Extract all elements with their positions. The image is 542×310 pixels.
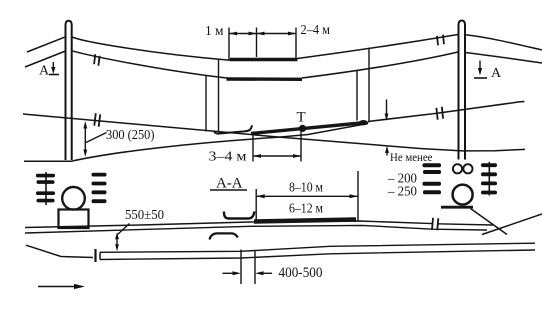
thick overlap segment on messenger A	[230, 58, 298, 62]
thick contact wire Q of incoming section	[251, 123, 366, 134]
thick overlap segment on messenger B	[227, 77, 303, 81]
dimension 400-500 left arrow	[223, 272, 236, 274]
underline A-A	[210, 189, 247, 191]
section mark A left: arrow and bar	[52, 62, 54, 71]
left tension pulley circle	[62, 187, 85, 210]
section mark A right: arrow and bar	[479, 61, 481, 73]
svg-text:300 (250): 300 (250)	[106, 127, 155, 142]
insulator on wire B	[94, 54, 100, 65]
left insulator stack 2 bars	[92, 173, 107, 203]
svg-text:Т: Т	[297, 110, 306, 126]
node T dot	[299, 125, 306, 132]
plan double line left section	[25, 221, 432, 228]
right insulator stack A bars	[423, 163, 442, 194]
right anchor diagonal up	[482, 214, 542, 235]
dimension 400-500 ticks	[241, 250, 255, 285]
dimension 3-4 m ticks	[253, 132, 301, 162]
svg-text:– 250: – 250	[387, 185, 417, 200]
insulator on wire A'	[437, 35, 444, 46]
top dimension line 2-4m	[257, 33, 297, 35]
right insulator stack B bars	[481, 163, 497, 194]
messenger wire A' rising to right pole	[298, 35, 459, 59]
dimension 300 (250) arrow	[84, 124, 86, 152]
svg-text:3–4 м: 3–4 м	[209, 150, 247, 165]
svg-text:1 м: 1 м	[205, 24, 224, 39]
plan wire rect left closure	[99, 252, 101, 259]
messenger wire B main span	[72, 51, 229, 79]
hooked end of contact wire (elevation)	[214, 125, 252, 133]
rail line lower	[100, 250, 535, 260]
dimension 3-4 m line	[253, 155, 301, 157]
plan thick working wire	[254, 220, 356, 222]
insulator on wire P	[94, 113, 100, 126]
contact wire P descending left to right	[23, 114, 525, 151]
messenger wire B' beyond right pole	[465, 53, 542, 64]
contact wire B rising to overlap	[24, 124, 368, 162]
insulator on wire R1	[436, 107, 443, 120]
plan anchor tick before rect	[94, 249, 96, 262]
svg-text:6–12 м: 6–12 м	[289, 202, 323, 217]
right pole	[459, 21, 466, 160]
svg-text:А: А	[491, 66, 502, 81]
hanger left 2	[218, 59, 220, 132]
svg-text:2–4 м: 2–4 м	[301, 23, 331, 38]
anchor wire R1 rising beyond right pole	[368, 102, 525, 122]
ne menee lower arrow	[386, 150, 388, 156]
right pole base circles	[453, 164, 462, 173]
svg-text:А-А: А-А	[216, 176, 243, 192]
ne menee upper arrow	[386, 100, 388, 117]
svg-text:8–10 м: 8–10 м	[289, 181, 323, 196]
right insulator stack B vertical	[488, 162, 490, 196]
svg-text:400-500: 400-500	[279, 265, 323, 281]
top dimension ticks	[229, 28, 296, 60]
svg-text:А: А	[39, 64, 50, 79]
clamp blob at right end of wire Q	[359, 120, 368, 125]
messenger wire B left anchor span	[25, 51, 66, 67]
messenger wire A main span	[72, 37, 230, 60]
hanger left 1	[205, 76, 207, 132]
svg-text:Не менее: Не менее	[390, 150, 433, 164]
leader for 300 (250)	[86, 133, 107, 143]
plan hooked wire end bracket 1	[224, 212, 254, 219]
messenger wire A left anchor span	[27, 37, 66, 52]
left counterweight box	[59, 210, 89, 229]
dimension 400-500 right arrow	[261, 272, 272, 274]
leader 550	[118, 224, 130, 235]
dimension line 8-10 / 6-12	[256, 195, 358, 197]
plan bracket 2	[210, 233, 238, 239]
left insulator stack 1 bars	[36, 174, 55, 203]
svg-text:550±50: 550±50	[125, 207, 164, 222]
right anchor base bar	[441, 206, 473, 209]
messenger wire B' rising to right pole	[302, 52, 458, 78]
plan lead-in diagonal	[26, 245, 93, 257]
direction arrow bottom left	[38, 286, 76, 288]
hanger right 2	[368, 48, 370, 123]
right tension pulley circle	[453, 185, 473, 205]
rail line upper	[100, 243, 535, 252]
dimension 550 arrow	[116, 237, 118, 247]
top dimension line 1m	[229, 33, 257, 35]
hanger right 1	[356, 70, 358, 121]
plan anchor insulator bars	[432, 218, 438, 230]
right anchor diagonal down	[471, 209, 508, 235]
left pole	[66, 21, 72, 160]
left insulator stack 1 vertical	[45, 172, 47, 205]
dimension ticks 8-10 / 6-12	[256, 171, 358, 222]
messenger wire A' beyond right pole	[465, 35, 542, 50]
